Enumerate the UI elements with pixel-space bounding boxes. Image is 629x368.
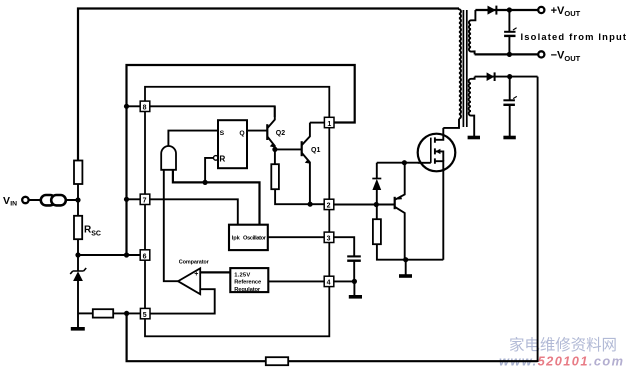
svg-text:Ipk: Ipk [232, 236, 241, 242]
comparator U5 [178, 268, 200, 294]
resistor R3 [266, 357, 288, 365]
node gate junction [402, 160, 407, 165]
resistor R2 horizontal to pin5 [78, 309, 140, 317]
MOSFET Q4 [418, 128, 456, 260]
transformer T1 secondary top [469, 10, 475, 54]
wire gate enters from pin2 driver [418, 162, 424, 164]
svg-text:2: 2 [327, 203, 331, 210]
wire oscillator output to pin3 [268, 236, 324, 238]
transistor Q2 [267, 106, 275, 149]
inductor L1 [41, 195, 66, 205]
node rail at pin7 wire [124, 197, 129, 202]
wire reference to pin4 internal [268, 280, 324, 282]
wire comparator plus input to reference [200, 271, 230, 273]
zener diode D1 [70, 255, 86, 328]
svg-text:4: 4 [327, 280, 331, 287]
node Q2 emitter [272, 147, 277, 152]
wire FF reset from oscillator net [205, 158, 213, 183]
wire primary bottom to MOSFET drain [443, 119, 459, 128]
svg-text:1: 1 [327, 121, 331, 128]
wire FF Q output to Q2 base [247, 130, 267, 132]
svg-text:8: 8 [143, 105, 147, 112]
terminal -VOUT [538, 51, 544, 57]
svg-text:Q2: Q2 [276, 130, 285, 137]
wire pin8 internal to Q2 collector [150, 106, 275, 117]
wire VIN rail riser to pin1 [127, 65, 355, 255]
svg-text:1.25V: 1.25V [234, 272, 250, 278]
terminal +VOUT [538, 7, 544, 13]
node gate driver base junction [374, 202, 379, 207]
pin 7 [140, 194, 150, 205]
oscillator U4 [229, 225, 268, 250]
svg-text:3: 3 [327, 236, 331, 243]
diode D3 [488, 6, 497, 15]
svg-text:IN: IN [10, 201, 17, 208]
IC U1 outline [145, 87, 329, 336]
node pin2 internal junction [308, 202, 313, 207]
pin 3 [324, 232, 334, 243]
pin 8 [140, 101, 150, 112]
wire AND output to FF S input [168, 131, 217, 147]
svg-text:OUT: OUT [564, 9, 580, 18]
wire pin8 external [127, 105, 141, 107]
node VIN junction [75, 197, 80, 202]
node output cap top [507, 7, 512, 12]
transformer core [463, 10, 466, 127]
diode D4 [487, 72, 495, 81]
svg-text:+: + [194, 271, 198, 278]
ground below zener [71, 327, 85, 331]
svg-text:Reference: Reference [234, 280, 262, 286]
svg-text:S: S [220, 130, 225, 137]
resistor R5 [373, 205, 443, 260]
pin 6 [140, 250, 150, 260]
svg-text:R: R [219, 155, 225, 164]
capacitor C3 [503, 77, 516, 137]
wire VIN to RSC [77, 200, 79, 216]
svg-text:OUT: OUT [564, 54, 580, 63]
node output cap bottom [507, 52, 512, 57]
svg-text:Comparator: Comparator [179, 259, 210, 265]
wire RSC to node [77, 239, 79, 255]
svg-text:−V: −V [551, 50, 565, 62]
wire pin7 internal to oscillator [150, 199, 238, 224]
svg-text:Oscillator: Oscillator [243, 236, 267, 242]
node RSC bottom junction [75, 252, 80, 257]
wire +VOUT rectifier [475, 9, 537, 11]
node lower cap top [507, 74, 512, 79]
node feedback junction at pin5 wire [124, 311, 129, 316]
svg-text:7: 7 [143, 198, 147, 205]
pin 2 [324, 199, 334, 210]
wire pin2 internal [310, 203, 324, 205]
resistor R1 [74, 161, 82, 185]
svg-text:5: 5 [143, 312, 147, 319]
wire comparator minus input to pin5 [150, 289, 215, 313]
wire bottom feedback to right riser [288, 360, 537, 362]
wire pin6 net [78, 254, 140, 256]
AND gate U2 [161, 146, 176, 170]
transformer T1 secondary bottom [469, 77, 475, 137]
transformer T1 primary winding [459, 9, 461, 119]
svg-text:Q: Q [239, 130, 244, 137]
wire pin1 internal to Q1 collector [310, 122, 325, 124]
wire feedback bottom left [127, 313, 266, 361]
ground below timing cap [349, 281, 362, 296]
svg-text:6: 6 [143, 253, 147, 260]
svg-text:Regulator: Regulator [234, 287, 261, 293]
wire Q2 emitter to Q1 base [275, 148, 302, 150]
pin 4 [324, 276, 334, 287]
transistor Q3 [376, 163, 404, 260]
svg-text:Isolated from Input: Isolated from Input [521, 31, 627, 42]
svg-text:V: V [3, 195, 10, 207]
node rail at pin8 wire [124, 104, 129, 109]
ground at MOSFET source [399, 260, 412, 276]
node pin4 external junction [352, 279, 357, 284]
svg-text:SC: SC [91, 230, 101, 237]
flip-flop U3 [218, 120, 247, 168]
node on oscillator net [203, 180, 208, 185]
wire pin2 external to gate driver [334, 204, 376, 206]
wire AND left input from comparator output [164, 170, 179, 281]
wire gate net [377, 162, 431, 164]
transistor Q1 [302, 123, 311, 205]
pin 5 [140, 308, 150, 319]
terminal VIN [22, 197, 28, 203]
wire -VOUT [475, 53, 538, 55]
wire top rail VIN to transformer primary [78, 9, 459, 161]
reference regulator U6 [230, 268, 268, 293]
zener diode D2 gate clamp [372, 163, 381, 205]
wire pin3 external to timing cap [334, 237, 354, 256]
wire R1 to VIN node [77, 184, 79, 200]
svg-text:Q1: Q1 [311, 147, 320, 154]
wire pin7 external [127, 198, 141, 200]
node on VIN rail at pin6 wire [124, 252, 129, 257]
capacitor C1 timing [347, 256, 361, 281]
resistor R4 [271, 149, 310, 204]
wire lower rectifier [475, 76, 538, 78]
svg-text:家电维修资料网: 家电维修资料网 [509, 336, 617, 354]
wire VIN terminal to node [29, 199, 78, 201]
FF reset bubble [214, 156, 219, 161]
ground below secondary [468, 136, 480, 140]
ground below lower cap [503, 136, 515, 140]
watermark text [499, 336, 623, 368]
svg-text:+V: +V [551, 5, 565, 17]
capacitor C2 output [504, 10, 516, 54]
pin 1 [324, 117, 334, 128]
wire AND right input from oscillator [173, 170, 260, 225]
wire pin4 external [334, 280, 354, 282]
resistor RSC [74, 216, 82, 239]
node source ground junction [403, 257, 408, 262]
